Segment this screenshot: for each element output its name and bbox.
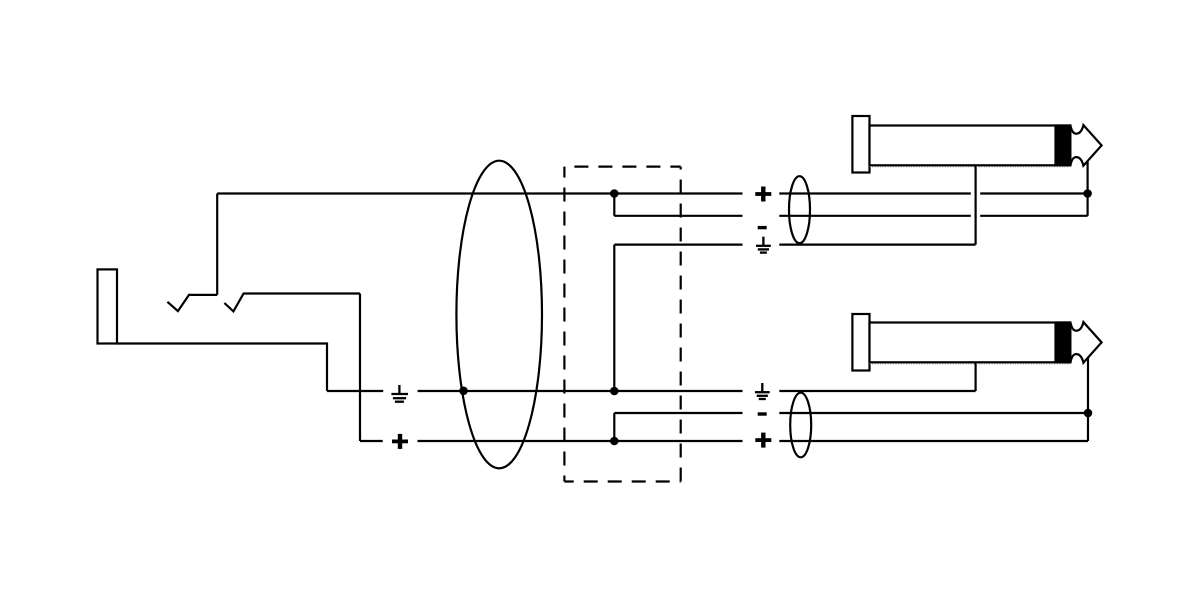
wire: tip of plug P1 down to minus row	[1086, 161, 1088, 216]
cable screen ellipse (main cable)	[456, 161, 542, 469]
wire: sleeve of J1 to ground row	[117, 344, 327, 392]
tip switch contact of J1 (left tick)	[167, 295, 217, 311]
plug P2 flange	[852, 314, 869, 371]
plug P2 body	[870, 323, 1071, 363]
wire: top minus row, with label gap and crossover gap	[614, 215, 1087, 217]
wire: top ground row, with label gap	[614, 244, 975, 246]
plug P1 knurling (serration under body)	[870, 166, 1071, 168]
wire: bottom minus row, with label gap	[614, 412, 1088, 414]
wire: tip contact up to top + row	[216, 194, 218, 295]
label: + on top right row	[755, 187, 771, 202]
label: minus on bottom right	[758, 412, 767, 415]
plug P2 insulating band	[1056, 323, 1071, 363]
wire: top + row (tip to plug P1), with label gap and crossover gap	[217, 192, 1087, 194]
sleeve contact of stereo jack socket J1 (left rectangle)	[98, 269, 118, 343]
ground symbol: top right (plug P1 sleeve)	[756, 237, 771, 253]
ring switch contact of J1 (right tick)	[224, 294, 360, 312]
plug P1 flange	[852, 116, 869, 173]
label: + at left (ring conductor)	[392, 434, 408, 449]
wire: bottom ground row up to sleeve of plug P2	[974, 362, 976, 391]
wire: tip of plug P2 down to bottom + row	[1087, 358, 1089, 441]
cable ellipse of plug P1 lead	[789, 176, 810, 243]
cable ellipse of plug P2 lead	[790, 393, 811, 458]
wire: vertical link top ground row to bottom ground row (inside dashed box)	[613, 245, 615, 391]
plug P2 knurling (serration under body)	[870, 363, 1071, 365]
plug P1 body	[870, 126, 1071, 166]
wire: top + row junction down to top minus row	[613, 194, 615, 216]
wire: bottom + row junction up to bottom minus row	[613, 413, 615, 441]
junction dot: bottom ground row at splitter	[610, 387, 619, 396]
junction dot: plug P1 tip node	[1083, 189, 1092, 198]
junction dot: top + row at splitter	[610, 189, 619, 198]
plug P2 tip	[1071, 322, 1102, 363]
splitter junction box (dashed outline)	[564, 167, 680, 482]
ground symbol: bottom right (plug P2 sleeve)	[755, 383, 770, 399]
ground symbol: left (cable shield)	[391, 385, 408, 402]
junction dot: plug P2 tip node	[1084, 409, 1093, 418]
junction dot: bottom + row at splitter	[610, 437, 619, 446]
wire: ring contact down to bottom + row	[359, 294, 361, 442]
label: minus on top right	[758, 226, 767, 229]
junction dot: shield connection on cable ellipse	[459, 387, 468, 396]
plug P1 insulating band	[1056, 126, 1071, 166]
wire: bottom + row (ring to plug P2), with symbol gap and label gap	[360, 440, 1088, 442]
wire: top ground row up to sleeve of plug P1	[974, 165, 976, 244]
wire: bottom ground row (shield), with symbol gap and label gap	[327, 390, 976, 392]
label: + on bottom right row	[755, 433, 771, 448]
plug P1 tip	[1071, 125, 1102, 166]
